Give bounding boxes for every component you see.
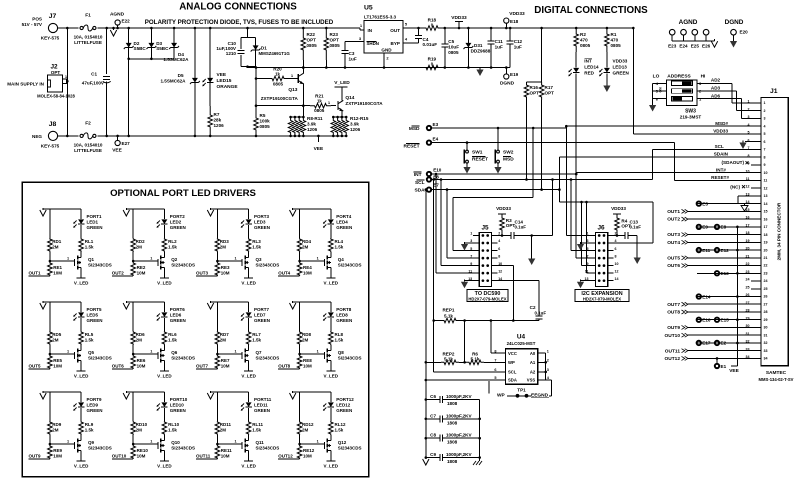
svg-text:3: 3	[547, 368, 549, 372]
wire gate	[133, 260, 158, 262]
svg-text:24LC025-MST: 24LC025-MST	[507, 341, 536, 346]
wire SCL to J5 pin9	[440, 178, 443, 181]
resistor RL5	[79, 331, 84, 345]
svg-text:0805: 0805	[307, 43, 318, 48]
svg-text:GREEN: GREEN	[170, 225, 186, 230]
svg-text:DIGITAL CONNECTIONS: DIGITAL CONNECTIONS	[534, 5, 648, 16]
svg-text:C8: C8	[430, 433, 436, 438]
capacitor C10	[247, 28, 249, 37]
svg-text:1808: 1808	[447, 401, 458, 406]
svg-text:Q7: Q7	[256, 350, 263, 355]
wire MSD branch to J5 loop	[532, 127, 535, 130]
svg-text:SCL: SCL	[715, 144, 724, 149]
wire INT to J1 pin10	[431, 173, 576, 175]
V_LED rail	[330, 453, 332, 461]
svg-text:1uF: 1uF	[495, 45, 503, 50]
svg-text:INT: INT	[584, 59, 592, 64]
VDD33 power symbol	[458, 22, 460, 29]
svg-text:GREEN: GREEN	[613, 71, 630, 76]
svg-text:R12-R15: R12-R15	[350, 116, 369, 121]
wire cell top	[293, 301, 331, 303]
svg-text:Q10: Q10	[171, 440, 180, 445]
svg-text:10M: 10M	[221, 364, 230, 369]
svg-text:6: 6	[764, 140, 766, 144]
svg-text:2M: 2M	[52, 245, 59, 250]
OUT1 wire	[29, 275, 50, 277]
ground arrow J6 pin13	[581, 280, 590, 282]
svg-text:3: 3	[748, 115, 750, 119]
resistor RE2	[131, 262, 136, 276]
ground arrow port 12	[290, 393, 296, 399]
wire cap bus right	[479, 400, 481, 460]
ground arrow port 4	[290, 210, 296, 216]
svg-text:GREEN: GREEN	[254, 225, 270, 230]
wire INT branch to J6 pin7	[575, 173, 578, 176]
svg-text:OPT: OPT	[307, 38, 317, 43]
svg-text:VDD33: VDD33	[509, 11, 525, 17]
V_LED rail	[80, 270, 82, 278]
svg-text:18: 18	[764, 233, 768, 237]
svg-text:MAIN SUPPLY IN: MAIN SUPPLY IN	[7, 82, 44, 87]
svg-text:Q4: Q4	[338, 257, 345, 262]
svg-text:1.5k: 1.5k	[168, 428, 177, 433]
svg-text:1808: 1808	[447, 459, 458, 464]
svg-text:0.1uF: 0.1uF	[630, 225, 642, 230]
svg-text:LED12: LED12	[336, 403, 351, 408]
fuse F1	[80, 26, 83, 29]
wire gate	[217, 260, 242, 262]
OUT8 wire	[278, 368, 299, 370]
svg-text:J6: J6	[597, 225, 605, 232]
wire cap bus left	[425, 400, 427, 460]
wire SCL branch to J6 pin5	[570, 178, 573, 181]
svg-text:10A, 0154010: 10A, 0154010	[74, 143, 103, 148]
svg-text:Q3: Q3	[256, 257, 263, 262]
svg-text:Si2343CDS: Si2343CDS	[338, 263, 362, 268]
svg-text:R7: R7	[214, 112, 220, 117]
svg-text:E16: E16	[702, 318, 711, 323]
svg-text:4: 4	[764, 124, 766, 128]
svg-text:C7: C7	[430, 413, 436, 418]
chassis ground	[479, 459, 481, 461]
svg-text:4: 4	[498, 239, 500, 243]
svg-text:R2: R2	[580, 32, 586, 37]
svg-text:14: 14	[764, 202, 768, 206]
svg-text:28k: 28k	[214, 118, 222, 123]
svg-text:LT1761ES5-3.3: LT1761ES5-3.3	[364, 15, 397, 20]
wire J5 pin10 down	[497, 265, 513, 267]
svg-text:(NC): (NC)	[730, 184, 740, 189]
resistor R7	[208, 106, 213, 136]
svg-text:E15: E15	[721, 318, 730, 323]
svg-text:RE10: RE10	[137, 448, 149, 453]
svg-text:U4: U4	[517, 334, 526, 341]
svg-text:OUT6: OUT6	[112, 364, 124, 369]
resistor R2	[574, 28, 579, 52]
V_LED rail	[248, 363, 250, 371]
svg-text:2: 2	[764, 109, 766, 113]
svg-text:HI: HI	[701, 74, 706, 80]
svg-text:1000pF,2KV: 1000pF,2KV	[446, 413, 472, 418]
svg-text:11: 11	[585, 269, 589, 273]
mosfet Q1	[80, 255, 82, 258]
wire SDA junction	[558, 188, 561, 191]
svg-text:2M: 2M	[136, 245, 143, 250]
svg-text:OPT: OPT	[545, 91, 555, 96]
svg-text:A1: A1	[530, 360, 536, 365]
svg-text:GREEN: GREEN	[254, 408, 270, 413]
resistor RL9	[79, 421, 84, 435]
resistor RD11	[216, 392, 218, 421]
resistor RE4	[297, 262, 302, 276]
test point E27 / VEE	[117, 136, 119, 141]
svg-text:VDD33: VDD33	[713, 129, 728, 134]
svg-text:1: 1	[764, 101, 766, 105]
svg-text:SAMTEC: SAMTEC	[766, 370, 787, 376]
svg-text:1: 1	[67, 440, 69, 444]
LED13 GREEN	[606, 52, 608, 68]
svg-text:KEY-575: KEY-575	[41, 144, 60, 149]
svg-text:1.5k: 1.5k	[85, 428, 94, 433]
svg-text:Q6: Q6	[171, 350, 178, 355]
resistor RL1	[79, 238, 84, 252]
wire cell top	[43, 208, 81, 210]
svg-text:R1: R1	[611, 32, 617, 37]
svg-text:0.1uF: 0.1uF	[535, 311, 547, 316]
svg-text:S5BC: S5BC	[156, 46, 169, 51]
svg-text:Q5: Q5	[88, 350, 95, 355]
svg-text:E2: E2	[721, 341, 727, 346]
resistor RD10	[132, 392, 134, 421]
resistor RL3	[246, 238, 251, 252]
svg-text:Q13: Q13	[288, 87, 297, 93]
svg-text:GREEN: GREEN	[336, 225, 352, 230]
mosfet Q5	[80, 348, 82, 351]
svg-text:PORT10: PORT10	[170, 397, 188, 402]
svg-text:22: 22	[764, 264, 768, 268]
J1 pin6 ground	[745, 141, 751, 143]
svg-text:23: 23	[764, 271, 768, 275]
diode D2	[128, 28, 130, 136]
svg-text:RD3: RD3	[220, 239, 229, 244]
svg-text:Si2343CDS: Si2343CDS	[256, 446, 280, 451]
VDD33 / resistor R4	[613, 213, 621, 215]
wire gate	[300, 353, 325, 355]
svg-text:OUT10: OUT10	[665, 333, 681, 339]
test point E22 / AGND	[117, 25, 119, 28]
svg-text:V_LED: V_LED	[157, 464, 172, 469]
ground arrow port 9	[40, 393, 46, 399]
svg-text:LED9: LED9	[87, 403, 99, 408]
svg-text:1000pF,2KV: 1000pF,2KV	[446, 452, 472, 457]
svg-text:6: 6	[498, 247, 500, 251]
svg-text:1000pF,2KV: 1000pF,2KV	[446, 394, 472, 399]
test point E5	[697, 201, 701, 205]
svg-text:S5BC: S5BC	[134, 46, 147, 51]
LED3 GREEN	[248, 209, 250, 219]
svg-text:LED11: LED11	[254, 403, 268, 408]
svg-text:3: 3	[764, 117, 766, 121]
svg-text:10M: 10M	[137, 454, 146, 459]
wire SDA / SDAIN to J1 pin8	[431, 189, 559, 191]
svg-text:GREEN: GREEN	[87, 225, 103, 230]
svg-text:V_LED: V_LED	[74, 281, 89, 286]
svg-text:V_LED: V_LED	[241, 281, 256, 286]
svg-text:3.9k: 3.9k	[307, 122, 316, 127]
svg-text:RD5: RD5	[52, 332, 61, 337]
svg-text:RD6: RD6	[136, 332, 145, 337]
svg-text:OUT5: OUT5	[29, 364, 41, 369]
svg-text:5.1k: 5.1k	[444, 357, 453, 362]
capacitor C13	[608, 235, 625, 237]
svg-text:OUT1: OUT1	[667, 209, 680, 215]
svg-text:ADDRESS: ADDRESS	[667, 74, 691, 80]
svg-text:RESET: RESET	[404, 144, 420, 150]
svg-text:V_LED: V_LED	[324, 374, 339, 379]
test point E15	[715, 318, 719, 322]
svg-text:470: 470	[580, 38, 588, 43]
svg-text:24: 24	[764, 279, 768, 283]
ground arrow J5 pin13	[465, 280, 474, 282]
svg-text:OUT7: OUT7	[196, 364, 208, 369]
wire to J6 pin9	[581, 202, 583, 266]
svg-text:NEG: NEG	[32, 134, 42, 139]
svg-text:10M: 10M	[303, 364, 312, 369]
svg-text:F2: F2	[85, 121, 91, 127]
svg-text:219-3MST: 219-3MST	[680, 114, 702, 119]
svg-text:27: 27	[764, 302, 768, 306]
svg-text:51V - 57V: 51V - 57V	[22, 22, 43, 27]
svg-text:PORT8: PORT8	[336, 307, 352, 312]
wire gate	[50, 260, 75, 262]
svg-text:OUT2: OUT2	[112, 271, 124, 276]
svg-text:C9: C9	[430, 452, 436, 457]
svg-text:OUT1: OUT1	[29, 271, 41, 276]
svg-text:RD11: RD11	[220, 422, 232, 427]
VDD33 / resistor R3	[498, 213, 506, 215]
mosfet Q7	[248, 348, 250, 351]
svg-text:RD7: RD7	[220, 332, 229, 337]
svg-text:C12: C12	[514, 39, 523, 44]
test point E8	[715, 225, 719, 229]
svg-text:E1: E1	[721, 364, 727, 369]
resistor RL2	[162, 238, 167, 252]
svg-text:28: 28	[764, 310, 768, 314]
resistor RD4	[299, 209, 301, 238]
svg-text:RL10: RL10	[168, 422, 180, 427]
svg-text:KEY-575: KEY-575	[41, 36, 60, 41]
svg-text:GREEN: GREEN	[87, 318, 103, 323]
svg-text:1.5k: 1.5k	[252, 428, 261, 433]
svg-text:12: 12	[615, 269, 619, 273]
svg-text:8: 8	[615, 254, 617, 258]
svg-text:10: 10	[615, 262, 619, 266]
mosfet Q8	[330, 348, 332, 351]
svg-text:1.5k: 1.5k	[252, 245, 261, 250]
LED9 GREEN	[80, 392, 82, 402]
svg-text:SCL: SCL	[508, 370, 517, 375]
svg-text:SW2: SW2	[503, 150, 514, 156]
ground arrow port 11	[207, 393, 213, 399]
svg-text:1.5SMC62A: 1.5SMC62A	[163, 57, 189, 62]
svg-text:PORT12: PORT12	[336, 397, 354, 402]
LED8 GREEN	[330, 302, 332, 312]
svg-text:RE3: RE3	[221, 265, 230, 270]
wire U5 BYP / capacitor C4	[403, 42, 419, 44]
svg-text:J7: J7	[49, 13, 57, 20]
svg-text:1808: 1808	[447, 440, 458, 445]
VEE stub	[317, 136, 319, 142]
capacitor C9	[426, 457, 440, 459]
svg-text:1.5k: 1.5k	[85, 245, 94, 250]
ground arrow port 1	[40, 210, 46, 216]
svg-text:OUT11: OUT11	[196, 454, 211, 459]
ground arrow port 7	[207, 303, 213, 309]
svg-text:RL8: RL8	[335, 332, 344, 337]
svg-text:E11: E11	[702, 248, 710, 253]
svg-text:RE12: RE12	[303, 448, 315, 453]
resistor RE7	[215, 355, 220, 369]
svg-text:AGND: AGND	[110, 12, 125, 18]
capacitor C11	[490, 28, 492, 41]
svg-text:RL2: RL2	[168, 239, 177, 244]
wire U5 IN	[359, 28, 361, 30]
resistor R18 (0 ohm)	[420, 27, 424, 29]
wire cell top	[211, 391, 249, 393]
svg-text:R22: R22	[307, 32, 316, 37]
svg-text:7: 7	[470, 254, 472, 258]
svg-text:E5: E5	[702, 201, 708, 206]
svg-text:OPTIONAL PORT LED DRIVERS: OPTIONAL PORT LED DRIVERS	[110, 188, 256, 199]
svg-text:7: 7	[764, 148, 766, 152]
LED5 GREEN	[80, 302, 82, 312]
resistor REP1	[434, 320, 441, 322]
svg-text:1: 1	[234, 350, 236, 354]
svg-text:LED13: LED13	[613, 65, 628, 70]
svg-text:16: 16	[764, 217, 768, 221]
OUT2 wire	[112, 275, 133, 277]
VEE bus at J1	[736, 227, 738, 366]
svg-text:14: 14	[615, 277, 619, 281]
svg-text:Si2343CDS: Si2343CDS	[171, 446, 195, 451]
svg-text:31: 31	[764, 333, 768, 337]
svg-text:1uF: 1uF	[514, 45, 522, 50]
svg-text:5.1k: 5.1k	[444, 314, 453, 319]
svg-text:OUT11: OUT11	[665, 348, 681, 354]
svg-text:RD12: RD12	[302, 422, 314, 427]
V_LED rail	[80, 363, 82, 371]
resistor R19 (0 ohm)	[424, 65, 440, 70]
svg-text:LED8: LED8	[336, 313, 348, 318]
svg-text:10uF: 10uF	[448, 45, 459, 50]
svg-text:A2: A2	[530, 370, 536, 375]
OUT12 wire	[278, 458, 299, 460]
svg-text:OUT12: OUT12	[665, 356, 681, 362]
svg-text:E17: E17	[702, 341, 711, 346]
svg-text:WP: WP	[508, 360, 515, 365]
svg-text:1.5k: 1.5k	[335, 245, 344, 250]
OUT4 wire	[278, 275, 299, 277]
svg-text:C1: C1	[91, 72, 97, 77]
svg-text:E10: E10	[433, 168, 442, 173]
resistor RL11	[246, 421, 251, 435]
svg-text:VEE: VEE	[217, 72, 227, 78]
svg-text:1: 1	[317, 257, 319, 261]
svg-text:8: 8	[764, 155, 766, 159]
svg-text:MSD#: MSD#	[715, 121, 728, 126]
svg-text:1: 1	[470, 232, 472, 236]
ground arrow port 8	[290, 303, 296, 309]
svg-text:E14: E14	[702, 294, 711, 299]
resistor RE10	[131, 445, 136, 459]
svg-text:1: 1	[547, 349, 549, 353]
svg-text:E13: E13	[721, 271, 730, 276]
mosfet Q12	[330, 438, 332, 441]
svg-text:E20: E20	[740, 30, 749, 35]
ground arrow port 6	[123, 303, 129, 309]
switch SW2 MSD	[497, 127, 500, 130]
svg-text:C5: C5	[448, 39, 454, 44]
svg-text:2: 2	[748, 107, 750, 111]
svg-text:1: 1	[150, 257, 152, 261]
svg-text:VCC: VCC	[508, 351, 517, 356]
svg-text:ZXTP19100CGTA: ZXTP19100CGTA	[345, 101, 383, 106]
svg-text:1.5k: 1.5k	[335, 338, 344, 343]
wire gate	[217, 443, 242, 445]
svg-text:OUT8: OUT8	[278, 364, 290, 369]
svg-text:8: 8	[494, 349, 496, 353]
diode D3	[150, 28, 152, 59]
svg-text:OPT: OPT	[530, 91, 540, 96]
resistor RD7	[216, 302, 218, 331]
svg-text:TP1: TP1	[517, 388, 526, 393]
wire SCL jog to C14 bus	[551, 178, 554, 181]
svg-text:V_LED: V_LED	[334, 80, 350, 86]
svg-text:1.5SMC62A: 1.5SMC62A	[160, 79, 186, 84]
svg-text:GREEN: GREEN	[170, 318, 186, 323]
svg-text:OUT: OUT	[390, 28, 400, 33]
svg-text:LITTELFUSE: LITTELFUSE	[74, 40, 102, 45]
wire SCL to J1 pin7	[431, 179, 652, 181]
svg-text:OUT3: OUT3	[196, 271, 208, 276]
svg-text:5: 5	[494, 376, 496, 380]
svg-text:1: 1	[748, 100, 750, 104]
svg-text:RL1: RL1	[85, 239, 94, 244]
wire SDA down to U4	[425, 188, 428, 191]
svg-text:1206: 1206	[350, 127, 361, 132]
svg-text:GND: GND	[381, 48, 392, 53]
svg-text:LED3: LED3	[254, 220, 266, 225]
wire U5 OUT rail	[403, 27, 420, 29]
resistor RE3	[215, 262, 220, 276]
svg-text:SCL: SCL	[415, 180, 425, 186]
svg-text:RE11: RE11	[221, 448, 233, 453]
test point E16	[697, 318, 701, 322]
svg-text:5.1k: 5.1k	[471, 357, 480, 362]
wire MSD branch to J6 pin1	[565, 125, 568, 128]
svg-text:BYP: BYP	[391, 41, 400, 46]
wire gate	[300, 443, 325, 445]
svg-text:10M: 10M	[303, 271, 312, 276]
svg-text:E9: E9	[702, 225, 708, 230]
svg-text:10M: 10M	[221, 454, 230, 459]
svg-text:LED1: LED1	[87, 220, 99, 225]
resistor RL12	[329, 421, 334, 435]
mosfet Q2	[163, 255, 165, 258]
capacitor C12	[509, 28, 511, 41]
svg-text:LO: LO	[653, 74, 660, 80]
svg-text:OUT7: OUT7	[667, 302, 680, 308]
